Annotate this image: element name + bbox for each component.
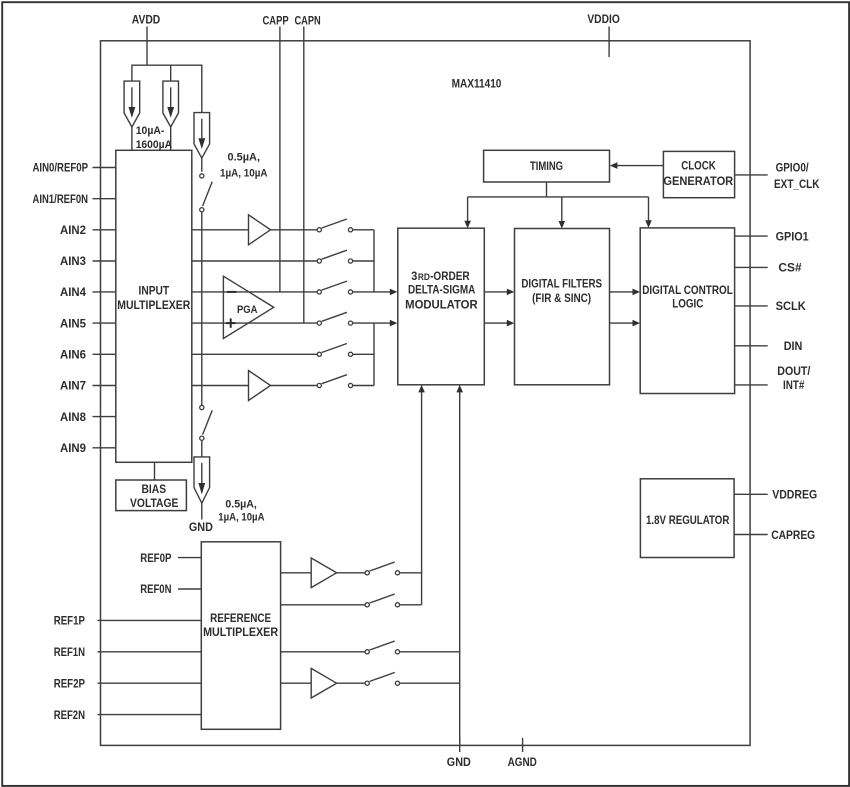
3rd-order delta-sigma modulator block: [398, 228, 485, 385]
svg-text:MULTIPLEXER: MULTIPLEXER: [117, 298, 190, 312]
wire switch S7 to bus: [353, 353, 374, 355]
wire refmux row2 to switch: [281, 604, 366, 606]
label 10uA-1600uA: [136, 125, 172, 151]
buffer A3: [311, 558, 336, 588]
svg-text:DIGITAL FILTERS: DIGITAL FILTERS: [521, 276, 602, 290]
svg-text:DOUT/: DOUT/: [777, 364, 811, 378]
wire drop to current source I3: [201, 65, 203, 113]
svg-text:GND: GND: [447, 755, 471, 769]
pin REF1P: [54, 614, 202, 628]
switch S1 (bias current to mux column): [200, 174, 213, 212]
svg-text:AIN0/REF0P: AIN0/REF0P: [33, 161, 89, 175]
svg-text:AIN3: AIN3: [60, 254, 86, 268]
bus joining rows AIN6 AIN7 to minus row: [373, 323, 375, 385]
svg-text:VOLTAGE: VOLTAGE: [130, 496, 178, 510]
wire AVDD split bar: [132, 64, 202, 66]
svg-text:AVDD: AVDD: [132, 13, 161, 27]
pin AVDD: [132, 13, 161, 66]
pin VDDIO: [587, 12, 620, 57]
pin SCLK: [735, 299, 807, 313]
pin REF0N: [140, 582, 201, 596]
svg-text:VDDIO: VDDIO: [587, 12, 620, 26]
svg-text:GPIO1: GPIO1: [776, 229, 809, 243]
pin AIN0/REF0P: [33, 161, 116, 175]
arrow timing to control logic: [645, 220, 652, 228]
pin DIN: [735, 339, 803, 353]
svg-text:MODULATOR: MODULATOR: [405, 297, 478, 311]
arrow timing to modulator: [464, 221, 471, 229]
svg-text:CS#: CS#: [778, 261, 802, 275]
pin GND (bottom): [447, 738, 471, 769]
svg-text:REF0N: REF0N: [140, 582, 171, 596]
svg-text:AIN5: AIN5: [60, 316, 86, 330]
svg-text:RD: RD: [418, 272, 430, 282]
svg-text:AIN9: AIN9: [60, 441, 86, 455]
svg-text:0.5µA,: 0.5µA,: [225, 499, 257, 511]
wire clock generator to timing with arrow: [610, 162, 664, 169]
svg-text:1µA, 10µA: 1µA, 10µA: [220, 168, 268, 180]
switch S6: [317, 312, 352, 325]
pin REF1N: [54, 645, 202, 659]
switch S8: [317, 375, 352, 388]
pin REF2N: [54, 708, 202, 722]
svg-text:INT#: INT#: [783, 378, 805, 392]
wire drop to current source I1: [131, 65, 133, 82]
svg-text:REF1P: REF1P: [54, 614, 85, 628]
buffer A4: [311, 668, 336, 698]
pin GPIO1: [735, 229, 809, 243]
wire refmux row4 to buffer A4: [281, 682, 312, 684]
switch S9: [365, 562, 400, 575]
svg-text:DIN: DIN: [784, 339, 803, 353]
wire mux row to PGA minus input and through: [192, 322, 317, 324]
svg-text:3: 3: [411, 269, 417, 283]
svg-text:0.5µA,: 0.5µA,: [228, 152, 261, 164]
svg-text:DIGITAL CONTROL: DIGITAL CONTROL: [642, 283, 733, 297]
svg-text:CLOCK: CLOCK: [681, 159, 716, 173]
current source I1: [124, 81, 140, 127]
svg-text:VDDREG: VDDREG: [772, 488, 817, 502]
wire switch S9 to riser1: [400, 572, 422, 574]
pin REF0P: [140, 551, 201, 565]
svg-text:AIN2: AIN2: [60, 223, 86, 237]
svg-text:MAX11410: MAX11410: [452, 77, 502, 91]
switch S7: [317, 344, 352, 357]
pin VDDREG: [734, 488, 817, 502]
svg-text:1.8V REGULATOR: 1.8V REGULATOR: [646, 513, 730, 527]
svg-text:AIN1/REF0N: AIN1/REF0N: [33, 192, 89, 206]
pin AIN4: [60, 285, 116, 299]
svg-text:DELTA-SIGMA: DELTA-SIGMA: [408, 283, 476, 297]
switch S10: [365, 594, 400, 607]
wire buffer A3 to switch: [337, 572, 366, 574]
pin CAPP: [263, 13, 289, 292]
wire switch S10 to riser1 corner: [400, 604, 422, 606]
svg-text:TIMING: TIMING: [530, 159, 563, 173]
switch S11: [365, 641, 400, 654]
svg-text:BIAS: BIAS: [142, 482, 167, 496]
wire mux to bias voltage block: [154, 462, 156, 480]
wire mux row AIN3 to switch: [192, 260, 317, 262]
arrow timing to filters: [559, 221, 566, 229]
wire switch S4 to bus: [353, 260, 374, 262]
wire switch S6 to modulator: [353, 322, 391, 324]
pin AIN8: [60, 410, 116, 424]
wire drop to current source I2: [170, 65, 172, 82]
svg-text:EXT_CLK: EXT_CLK: [774, 177, 820, 191]
riser1 to modulator with arrow: [418, 385, 425, 605]
wire I3 to switch S1: [201, 158, 203, 172]
wire mux row to PGA plus input and through: [192, 291, 317, 293]
svg-text:10µA-: 10µA-: [136, 125, 165, 137]
pin AIN9: [60, 441, 116, 455]
wire mux row AIN6 to switch: [192, 353, 317, 355]
wire filters to control logic row2 with arrow: [610, 320, 641, 327]
pin DOUT/INT#: [735, 364, 811, 392]
svg-text:AIN4: AIN4: [60, 285, 86, 299]
pin AIN6: [60, 348, 116, 362]
bus joining rows AIN2 AIN3 to plus row: [373, 230, 375, 292]
svg-text:GPIO0/: GPIO0/: [776, 160, 810, 174]
wire switch S8 to bus: [353, 385, 374, 387]
riser2 GND line to modulator with arrow: [456, 385, 463, 746]
svg-text:AGND: AGND: [508, 755, 537, 769]
svg-text:REF2P: REF2P: [54, 676, 85, 690]
reference multiplexer block: [201, 542, 280, 730]
wire switch S2 to current source I4: [201, 440, 203, 457]
svg-text:SCLK: SCLK: [776, 299, 807, 313]
wire mux row AIN7 to buffer A2: [192, 385, 249, 387]
svg-text:GENERATOR: GENERATOR: [663, 174, 733, 188]
svg-text:AIN7: AIN7: [60, 379, 86, 393]
svg-text:1µA, 10µA: 1µA, 10µA: [218, 512, 264, 524]
label 0.5uA 1uA 10uA (bottom): [218, 499, 264, 524]
arrow into modulator bottom row: [390, 320, 398, 327]
svg-text:INPUT: INPUT: [139, 284, 170, 298]
1.8V regulator block: [640, 479, 734, 558]
svg-text:CAPREG: CAPREG: [771, 528, 815, 542]
wire mux row AIN2 to buffer A1: [192, 229, 249, 231]
svg-text:REF2N: REF2N: [54, 708, 85, 722]
wire modulator to filters row2 with arrow: [484, 320, 514, 327]
svg-text:AIN6: AIN6: [60, 348, 86, 362]
pin CAPN: [294, 13, 320, 323]
label 0.5uA 1uA 10uA (top): [220, 152, 268, 180]
pin REF2P: [54, 676, 202, 690]
arrow into modulator top row: [390, 289, 398, 296]
buffer A2: [249, 371, 271, 401]
wire bias column down the mux side: [201, 212, 203, 405]
pin GPIO0/EXT_CLK: [735, 160, 820, 191]
pin AIN1/REF0N: [33, 192, 116, 206]
svg-text:(FIR & SINC): (FIR & SINC): [532, 291, 591, 305]
wire buffer A1 to switch: [271, 229, 318, 231]
input multiplexer block: [116, 150, 192, 462]
svg-text:GND: GND: [189, 520, 213, 534]
pin AIN3: [60, 254, 116, 268]
current source I3: [194, 113, 210, 159]
pin CAPREG: [734, 528, 815, 542]
pin AIN7: [60, 379, 116, 393]
current source I4: [194, 457, 210, 503]
pin AIN5: [60, 316, 116, 330]
wire buffer A4 to switch: [337, 682, 366, 684]
svg-text:MULTIPLEXER: MULTIPLEXER: [203, 625, 278, 639]
wire switch S12 to riser2: [400, 682, 460, 684]
current source I2: [163, 81, 179, 127]
svg-text:REF0P: REF0P: [140, 551, 171, 565]
switch S2 (bias current low side): [200, 405, 213, 440]
svg-text:1600µA: 1600µA: [136, 139, 172, 151]
svg-text:LOGIC: LOGIC: [672, 296, 703, 310]
svg-text:PGA: PGA: [237, 304, 258, 316]
wire switch S3 to bus: [353, 229, 374, 231]
timing block: [484, 150, 610, 182]
svg-text:CAPP: CAPP: [263, 13, 289, 27]
wire buffer A2 to switch: [271, 385, 318, 387]
digital control logic block: [640, 228, 734, 394]
pin AIN2: [60, 223, 116, 237]
svg-text:REF1N: REF1N: [54, 645, 85, 659]
wire modulator to filters row1 with arrow: [484, 289, 514, 296]
switch S5: [317, 281, 352, 294]
wire refmux row1 to buffer A3: [281, 572, 312, 574]
wire refmux row3 to switch: [281, 651, 366, 653]
svg-text:-ORDER: -ORDER: [430, 269, 470, 283]
svg-text:AIN8: AIN8: [60, 410, 86, 424]
wire I2 to input mux: [170, 127, 172, 150]
clock generator block: [663, 151, 734, 197]
wire timing distribution: [468, 182, 649, 222]
wire filters to control logic row1 with arrow: [610, 289, 641, 296]
wire switch S5 to modulator: [353, 291, 391, 293]
digital filters block: [515, 229, 610, 385]
svg-text:CAPN: CAPN: [294, 13, 320, 27]
switch S12: [365, 672, 400, 685]
pin AGND (bottom): [508, 738, 537, 769]
buffer A1: [249, 215, 271, 245]
switch S3: [317, 219, 352, 232]
chip outline MAX11410: [101, 41, 751, 746]
svg-text:REFERENCE: REFERENCE: [210, 611, 271, 625]
wire I4 to GND: [201, 503, 203, 519]
op-amp PGA: [223, 276, 273, 338]
pin CS#: [735, 261, 802, 275]
switch S4: [317, 250, 352, 263]
bias voltage block: [116, 480, 187, 511]
wire I1 to input mux: [131, 127, 133, 150]
wire switch S11 to riser2: [400, 651, 460, 653]
